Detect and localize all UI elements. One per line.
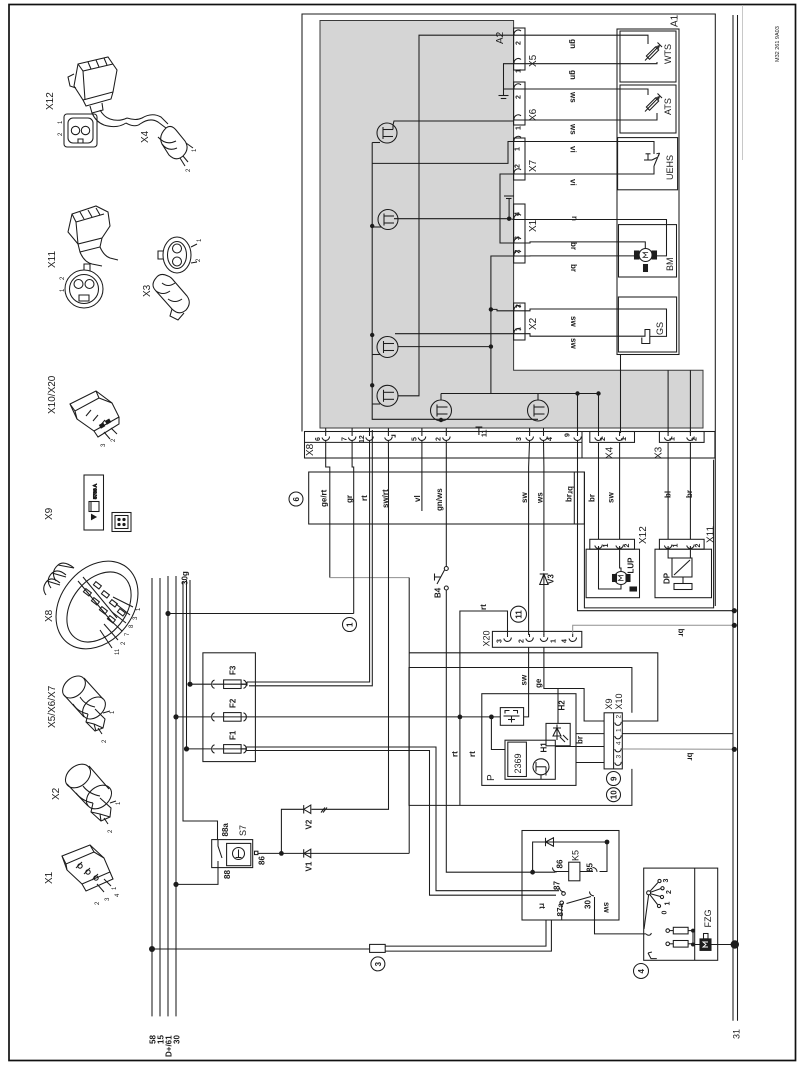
sensor UEHS box xyxy=(618,138,678,190)
svg-text:12: 12 xyxy=(359,435,366,443)
svg-text:WTS: WTS xyxy=(663,44,673,64)
wire gr X8.7 down to corner xyxy=(352,440,354,614)
connector X3 strip box xyxy=(659,432,704,443)
wire 30g xyxy=(183,582,218,840)
svg-text:X8: X8 xyxy=(44,609,55,622)
wire br X8.9 down to rail 31 xyxy=(578,440,735,611)
svg-text:4: 4 xyxy=(637,969,646,974)
svg-text:UEHS: UEHS xyxy=(665,155,675,180)
pin X20.4 xyxy=(569,634,577,641)
svg-text:X11: X11 xyxy=(47,251,58,268)
svg-text:X3: X3 xyxy=(654,446,665,459)
node V1 junction xyxy=(279,851,284,856)
WTS thermistor symbol xyxy=(645,43,662,61)
connector X9 X10 strip xyxy=(604,713,622,769)
svg-text:X3: X3 xyxy=(142,284,153,297)
svg-text:X9: X9 xyxy=(604,698,614,709)
svg-text:30: 30 xyxy=(173,1035,182,1044)
pin X8.12 xyxy=(366,428,374,440)
wire F2 output to P xyxy=(247,716,460,718)
wire branch to X10 pin2 xyxy=(409,653,658,721)
connector X1 box xyxy=(514,204,525,263)
DP sender symbol xyxy=(672,558,692,590)
svg-text:X5/X6/X7: X5/X6/X7 xyxy=(47,685,58,728)
svg-text:4: 4 xyxy=(115,893,121,897)
pin leaders 1 2 at X3 xyxy=(191,244,197,263)
wire P to X9 pin lower xyxy=(576,762,604,764)
pictorial hose and boot X4 xyxy=(126,115,188,162)
ATS thermistor symbol xyxy=(645,94,662,112)
pump LUP box xyxy=(586,549,639,598)
pin X1.2 xyxy=(514,251,525,257)
svg-text:2: 2 xyxy=(516,95,523,99)
svg-text:2: 2 xyxy=(692,437,699,441)
wire br H1 to X9.4 xyxy=(555,746,604,748)
svg-text:X9: X9 xyxy=(44,507,55,520)
wire V3 to X20.1 xyxy=(543,587,545,635)
svg-text:br: br xyxy=(569,242,578,250)
pin X7.1 xyxy=(514,136,525,142)
node on bus xyxy=(370,383,374,387)
svg-text:3: 3 xyxy=(497,639,504,643)
relay K5 box xyxy=(522,831,619,921)
wire gr to rail D+/61 xyxy=(168,613,354,615)
svg-text:5788 A: 5788 A xyxy=(93,483,99,499)
svg-text:M32 261 9A03: M32 261 9A03 xyxy=(775,26,781,62)
svg-text:X2: X2 xyxy=(51,787,62,800)
connector X6 box xyxy=(514,82,525,125)
svg-text:br: br xyxy=(576,736,585,744)
supply rail 58 xyxy=(151,578,153,1016)
rotary switch hub xyxy=(647,879,665,907)
svg-text:X12: X12 xyxy=(638,526,649,544)
pin X8.11 unconnected xyxy=(476,427,483,435)
ignition switch S7 box xyxy=(212,840,253,868)
pictorial X9 mate xyxy=(112,513,131,532)
pictorial X3 plug body xyxy=(153,274,189,320)
wire X20.3 rt up-left xyxy=(460,611,508,717)
svg-text:1: 1 xyxy=(346,622,355,627)
node X2 pin2 junction xyxy=(489,307,493,311)
circled 1 reference xyxy=(343,618,357,632)
pin X8.5 xyxy=(418,428,426,440)
diode V1 xyxy=(304,849,311,857)
svg-text:sw: sw xyxy=(602,902,611,913)
node F2 feed on rail 30 xyxy=(173,714,178,719)
wire S7 86 to V1 xyxy=(258,852,409,854)
svg-text:2: 2 xyxy=(196,258,202,262)
resistor R1 in FZG xyxy=(666,927,693,934)
sensor GS box xyxy=(618,297,676,352)
node xyxy=(575,391,579,395)
svg-text:F3: F3 xyxy=(229,665,238,675)
svg-text:1: 1 xyxy=(58,120,64,124)
transistor T6 xyxy=(528,400,549,421)
sensor ATS box xyxy=(620,85,676,133)
circled 4 reference xyxy=(634,964,649,979)
pin X4.1 xyxy=(616,432,624,441)
svg-text:3: 3 xyxy=(133,616,139,620)
pictorial connector X1 xyxy=(62,845,113,892)
svg-text:2: 2 xyxy=(60,276,66,280)
svg-text:1: 1 xyxy=(670,437,677,441)
svg-text:X4: X4 xyxy=(140,130,151,143)
svg-text:gr: gr xyxy=(345,495,354,503)
wire rt second conductor xyxy=(249,430,372,686)
svg-text:A2: A2 xyxy=(495,31,506,44)
svg-text:30g: 30g xyxy=(181,571,190,585)
transistor T1 xyxy=(372,121,514,143)
wire X6.2 to ATS xyxy=(525,89,648,95)
wire sw X4.1 down to X12 xyxy=(619,442,621,539)
ground jumper X5.1-X6.2 xyxy=(504,64,515,89)
pin X8.2 xyxy=(443,428,451,440)
wire br X3.2 down to X11 xyxy=(689,442,691,539)
pin X8.7 xyxy=(348,428,356,440)
svg-text:vl: vl xyxy=(413,495,422,502)
svg-text:11: 11 xyxy=(515,610,524,619)
svg-text:sw: sw xyxy=(520,674,529,685)
svg-text:X2: X2 xyxy=(528,317,539,330)
svg-text:3: 3 xyxy=(105,897,111,901)
svg-text:P: P xyxy=(486,774,497,781)
wire F3 feed xyxy=(189,580,191,684)
pin X6.1 xyxy=(514,115,525,121)
pump motor LUP xyxy=(613,572,637,592)
pin X5.2 xyxy=(514,30,525,36)
pictorial connector X8 xyxy=(39,545,155,665)
svg-text:X20: X20 xyxy=(482,630,492,646)
FZG ground hook xyxy=(648,952,657,959)
wire X7.1 to UEHS xyxy=(525,142,654,155)
svg-text:rt: rt xyxy=(479,604,488,610)
node supply junction xyxy=(458,715,463,720)
relay coil K5 xyxy=(552,862,597,881)
dashboard container box xyxy=(409,668,632,806)
wire X12.2 to pump xyxy=(620,549,621,571)
relay contact 87 xyxy=(559,888,564,892)
svg-text:4: 4 xyxy=(515,212,522,216)
svg-text:2: 2 xyxy=(111,438,117,442)
connector X5 box xyxy=(514,28,525,70)
circled 10 reference xyxy=(607,788,621,802)
pictorial connector X5/X6/X7 xyxy=(58,672,109,731)
wire 87a down to long line xyxy=(561,905,563,920)
svg-text:3: 3 xyxy=(663,879,670,883)
svg-text:br: br xyxy=(677,629,686,637)
svg-text:vi: vi xyxy=(569,146,578,153)
node on bus xyxy=(370,333,374,337)
svg-text:FZG: FZG xyxy=(703,910,713,928)
svg-text:11: 11 xyxy=(115,648,121,655)
node on rail 30 xyxy=(173,882,178,887)
svg-text:rt: rt xyxy=(538,903,547,909)
connector X4 strip box xyxy=(590,432,635,443)
svg-text:1: 1 xyxy=(616,728,623,732)
svg-text:br: br xyxy=(565,494,574,502)
pin X1.3 xyxy=(514,238,525,244)
wire X2.1 to GS sensor xyxy=(525,334,642,337)
svg-text:7: 7 xyxy=(342,437,349,441)
svg-text:2: 2 xyxy=(516,304,523,308)
svg-text:rt: rt xyxy=(360,495,369,501)
svg-text:1: 1 xyxy=(621,437,628,441)
svg-text:X1: X1 xyxy=(44,871,55,884)
schematic frame xyxy=(302,14,715,606)
S7 contact lines xyxy=(218,840,222,868)
pin leaders X5/X6/X7 xyxy=(98,711,110,734)
S7 key symbol box xyxy=(227,843,251,865)
svg-text:0: 0 xyxy=(662,911,669,915)
pin X20.2 xyxy=(526,634,534,641)
node on rail 31 xyxy=(732,747,737,752)
wire F1 output fork to relay 87 xyxy=(246,747,559,891)
pin X11.1 xyxy=(664,545,672,550)
wire UEHS to X3 pin2 xyxy=(689,370,691,433)
wire ge/rt horizontal (gray ink) xyxy=(330,577,409,579)
wire bus to X7 pin 1 xyxy=(372,142,514,164)
svg-text:rt: rt xyxy=(451,751,460,757)
svg-text:vi: vi xyxy=(569,179,578,186)
pin X8.4 xyxy=(540,428,548,440)
LED H2 symbol xyxy=(553,725,568,743)
svg-text:sw: sw xyxy=(569,338,578,349)
svg-text:gn: gn xyxy=(569,39,578,49)
wire X5.1 to WTS xyxy=(525,62,657,64)
svg-text:7: 7 xyxy=(125,632,131,636)
pictorial X3 front view xyxy=(158,237,191,273)
fuse F1 xyxy=(187,745,248,754)
pin X8.1 xyxy=(385,428,393,440)
wire X2.2 to GS xyxy=(525,309,667,336)
svg-text:V3: V3 xyxy=(547,574,556,584)
svg-text:2: 2 xyxy=(616,715,623,719)
svg-text:2: 2 xyxy=(95,901,101,905)
svg-text:ws: ws xyxy=(569,123,578,135)
svg-text:3: 3 xyxy=(374,961,383,966)
transistor T2 xyxy=(372,210,514,230)
splice box on line 3 xyxy=(370,944,386,952)
svg-text:2: 2 xyxy=(515,164,522,168)
BM motor symbol xyxy=(635,249,657,272)
svg-text:LUP: LUP xyxy=(627,557,636,574)
resistor R2 in FZG xyxy=(666,941,693,948)
svg-text:gn: gn xyxy=(569,70,578,80)
wire F1 output fork to relay 87a xyxy=(246,751,556,896)
wire X7.2 to UEHS xyxy=(525,166,654,174)
pin X3.1 xyxy=(664,432,672,441)
svg-text:X4: X4 xyxy=(605,446,616,459)
svg-text:1: 1 xyxy=(515,147,522,151)
wire sw X20.2 down to stabilizer xyxy=(524,647,529,717)
wire ge branch to H2 xyxy=(557,689,559,724)
svg-text:2: 2 xyxy=(108,829,114,833)
pin X7.2 xyxy=(514,169,525,175)
wire UEHS to X3 pin1 xyxy=(667,370,669,433)
svg-text:br: br xyxy=(588,494,597,502)
svg-text:V1: V1 xyxy=(305,861,314,871)
svg-text:br: br xyxy=(566,486,575,494)
wire vl X8.5 stub xyxy=(421,440,423,511)
relay suppression diode xyxy=(533,838,607,872)
svg-text:85: 85 xyxy=(586,863,595,872)
wire S7 88 to rail 30 xyxy=(176,868,218,885)
pin X2.2 xyxy=(514,306,525,312)
svg-text:K5: K5 xyxy=(571,850,581,861)
svg-text:87a: 87a xyxy=(556,903,565,917)
sensor WTS box xyxy=(620,31,676,82)
svg-text:2: 2 xyxy=(600,437,607,441)
svg-text:ge: ge xyxy=(534,678,543,688)
svg-text:2: 2 xyxy=(436,437,443,441)
svg-text:X11: X11 xyxy=(706,526,717,543)
container box around X12 X11 components xyxy=(584,460,713,608)
jumper X7.2 to X1.3 xyxy=(500,174,514,243)
ground symbol inside A2 above X1 pin4 xyxy=(504,196,514,219)
wire gn/ws X8.2 down to B4 xyxy=(445,440,447,566)
transistor T4 xyxy=(372,35,514,406)
svg-text:X12: X12 xyxy=(45,92,56,110)
wire X10.4 to rail 31 (gray ink) xyxy=(622,748,734,750)
svg-text:1: 1 xyxy=(673,544,680,548)
svg-text:9: 9 xyxy=(565,433,572,437)
svg-text:1: 1 xyxy=(192,148,198,152)
instrument cluster P box xyxy=(482,694,576,786)
terminal 86 square xyxy=(255,851,258,854)
circled 11 reference xyxy=(511,606,527,622)
wire X12.1 to pump xyxy=(599,549,622,589)
control unit A2 gray body xyxy=(320,21,703,429)
circled 3 reference xyxy=(371,957,385,971)
svg-text:8: 8 xyxy=(129,624,135,628)
svg-text:2369: 2369 xyxy=(513,753,523,773)
svg-text:86: 86 xyxy=(556,859,565,868)
svg-text:88a: 88a xyxy=(221,823,230,837)
GS speed sensor symbol xyxy=(642,330,650,344)
pin X8.6 xyxy=(322,428,330,440)
LED H2 box xyxy=(546,723,570,745)
wire X1 pin2 down to X2 pin2 junction xyxy=(491,256,538,400)
pin X2.1 xyxy=(514,329,525,335)
pin X8.3 xyxy=(526,428,534,440)
pin X1.4 xyxy=(514,214,525,220)
connector X20 strip xyxy=(492,631,581,647)
switch blade xyxy=(644,895,651,935)
internal bus wire xyxy=(372,143,538,420)
svg-text:2: 2 xyxy=(695,544,702,548)
node diode left xyxy=(530,870,535,875)
svg-text:X1: X1 xyxy=(528,219,539,232)
lamp H1 symbol xyxy=(533,759,549,780)
svg-text:br: br xyxy=(686,753,695,761)
circled 6 reference xyxy=(289,492,303,506)
splice marks on V2 wire xyxy=(321,808,327,813)
wire sw X8.3 down to X20.2 xyxy=(529,440,530,635)
box A1 xyxy=(617,29,679,355)
svg-text:2: 2 xyxy=(624,544,631,548)
svg-text:5: 5 xyxy=(411,437,418,441)
svg-text:S7: S7 xyxy=(238,825,248,836)
svg-text:2: 2 xyxy=(121,641,127,645)
odometer counter box xyxy=(508,742,527,776)
node F1 feed xyxy=(184,746,189,751)
svg-text:X8: X8 xyxy=(305,443,316,456)
svg-text:3: 3 xyxy=(101,443,107,447)
svg-text:4: 4 xyxy=(547,437,554,441)
pin leaders X2 xyxy=(104,801,116,824)
wire junction into P xyxy=(460,716,500,718)
svg-text:H2: H2 xyxy=(558,700,567,711)
wire X10.1 to rail 31 xyxy=(622,733,733,735)
svg-text:2: 2 xyxy=(515,250,522,254)
node xyxy=(596,391,600,395)
svg-text:sw: sw xyxy=(569,316,578,327)
wire ge/rt down to V1 row xyxy=(408,578,410,854)
connector X7 box xyxy=(514,138,525,180)
svg-text:sw: sw xyxy=(520,492,529,503)
odometer H1 box xyxy=(505,740,555,779)
UEHS pressure switch symbol xyxy=(644,153,660,166)
wire gn/ws B4 to relay coil xyxy=(446,590,555,872)
supply rail D+/61 xyxy=(167,576,169,1016)
node xyxy=(691,929,695,933)
pictorial connector X9 xyxy=(84,475,104,530)
wire P to X9 pin xyxy=(576,733,604,735)
node T3 lead junction xyxy=(489,344,493,348)
svg-text:3: 3 xyxy=(616,755,623,759)
stabilizer symbol xyxy=(504,711,520,723)
connector X2 box xyxy=(514,303,525,340)
wire X1.3 to BM xyxy=(525,242,645,249)
svg-text:B4: B4 xyxy=(434,587,443,598)
connector X11 strip xyxy=(659,539,704,549)
pin X6.2 xyxy=(514,84,525,90)
wire to X8 pin9 xyxy=(577,394,579,434)
wire resistors common xyxy=(693,931,700,945)
wire colour strip box xyxy=(309,472,585,524)
wire ge/rt X8.6 down xyxy=(326,440,330,578)
faint inner margin line top right xyxy=(742,5,744,160)
wire ws X8.4 down to V3 xyxy=(543,440,545,571)
svg-text:2: 2 xyxy=(519,639,526,643)
transistor T3 xyxy=(372,337,491,358)
pin X5.1 xyxy=(514,59,525,65)
svg-text:1: 1 xyxy=(516,327,523,331)
pictorial X12 front view xyxy=(64,114,97,147)
switch B4 xyxy=(435,567,449,591)
svg-text:1: 1 xyxy=(551,639,558,643)
svg-text:br: br xyxy=(685,490,694,498)
svg-text:2: 2 xyxy=(666,890,673,894)
svg-text:n: n xyxy=(570,216,579,221)
svg-text:GS: GS xyxy=(655,322,665,335)
transistor T5 xyxy=(431,394,452,422)
circled 9 reference xyxy=(607,772,621,786)
node on rail 31 xyxy=(732,608,737,613)
node on rail 31 xyxy=(732,623,737,628)
pin X12.1 xyxy=(595,545,603,550)
wire relay 30 down to FZG xyxy=(595,897,647,934)
voltage stabilizer box xyxy=(500,708,523,726)
fuse F3 xyxy=(190,680,247,689)
wire V2 branch xyxy=(281,809,303,853)
svg-text:87: 87 xyxy=(553,881,562,890)
pin X20.3 xyxy=(504,634,512,641)
sensor DP box xyxy=(655,549,712,598)
pictorial connector X12 xyxy=(68,57,127,127)
node T5 bottom xyxy=(439,418,443,422)
pin X11.2 xyxy=(687,545,695,550)
